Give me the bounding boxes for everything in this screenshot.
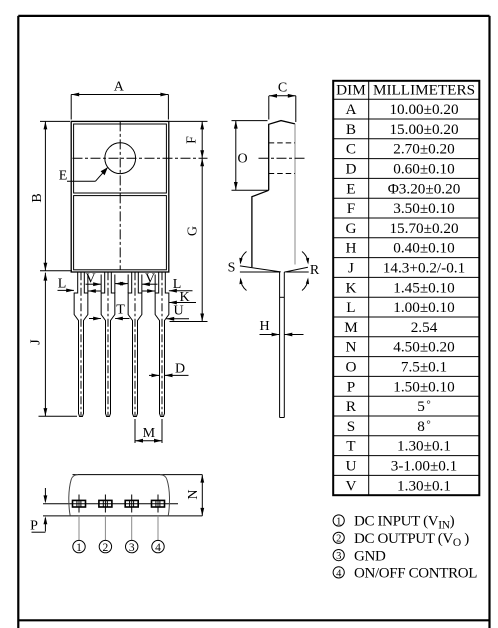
front view tab section inner outline <box>74 124 167 193</box>
svg-text:N: N <box>345 339 356 356</box>
dimension C line and arrows <box>269 94 296 122</box>
svg-text:L: L <box>346 299 355 316</box>
side view lead <box>280 272 285 418</box>
dimension A label <box>114 80 125 95</box>
svg-text:M: M <box>143 426 156 441</box>
svg-text:DC OUTPUT (VO ): DC OUTPUT (VO ) <box>354 531 469 549</box>
svg-text:MILLIMETERS: MILLIMETERS <box>373 82 475 99</box>
svg-text:10.00±0.20: 10.00±0.20 <box>389 101 458 118</box>
dimension E label <box>59 169 68 184</box>
side view body step and left edge <box>252 190 269 267</box>
svg-text:J: J <box>29 339 44 345</box>
dimension L left arrow <box>58 289 75 293</box>
svg-text:T: T <box>116 303 125 318</box>
svg-text:3.50±0.10: 3.50±0.10 <box>393 200 455 217</box>
svg-text:DC INPUT (VIN): DC INPUT (VIN) <box>354 514 455 532</box>
dimension O line and arrows <box>232 121 269 191</box>
side view tab outline <box>269 121 295 191</box>
dimension N label <box>186 489 201 499</box>
dimension L right label <box>173 277 182 292</box>
dimension U label <box>173 304 183 319</box>
dimension V middle gap double arrow <box>115 282 128 286</box>
front view horizontal center line through hole <box>73 157 208 159</box>
side view bottom reference line left <box>240 271 280 273</box>
svg-text:U: U <box>345 458 356 475</box>
pin 2 number leader line <box>104 516 106 540</box>
dimension N line and arrows <box>200 475 204 516</box>
front view pin 4 center line <box>161 272 163 416</box>
dimension F line and arrows <box>168 121 207 158</box>
dimension U arrow <box>166 317 189 321</box>
front view outer body outline <box>71 121 169 272</box>
dimension L right arrow <box>169 289 193 293</box>
svg-text:U: U <box>173 304 183 319</box>
front view pin 1 outline <box>74 272 88 416</box>
front view pin 1 center line <box>80 272 82 416</box>
svg-text:1.50±0.10: 1.50±0.10 <box>393 378 455 395</box>
svg-text:1: 1 <box>76 542 82 554</box>
svg-text:2: 2 <box>336 534 341 545</box>
dimension S arc arrows <box>239 252 246 291</box>
pin 2 number circle <box>99 540 111 554</box>
front view mounting hole <box>105 143 136 174</box>
dimension K arrow <box>169 301 196 305</box>
svg-text:D: D <box>345 161 356 178</box>
dimension table header <box>336 82 475 99</box>
dimension D label <box>175 362 185 377</box>
bottom view lead center line <box>43 503 178 505</box>
pin function notes <box>333 514 477 582</box>
pin 1 number leader line <box>78 516 80 540</box>
svg-text:1.00±0.10: 1.00±0.10 <box>393 299 455 316</box>
front view pin 2 outline <box>101 272 115 416</box>
pin 3 number circle <box>126 540 138 554</box>
svg-text:1.30±0.1: 1.30±0.1 <box>397 438 451 455</box>
svg-text:H: H <box>259 319 269 334</box>
svg-text:4: 4 <box>336 568 342 579</box>
dimension M line and arrows <box>135 439 162 443</box>
bottom view top edge with N extension <box>73 474 203 476</box>
side view bottom slant right <box>284 267 308 272</box>
svg-text:C: C <box>346 141 356 158</box>
svg-text:S: S <box>228 261 236 276</box>
dimension G label <box>186 226 201 236</box>
dimension R label <box>310 263 320 278</box>
svg-text:N: N <box>186 489 201 499</box>
dimension L left label <box>58 277 67 292</box>
svg-text:R: R <box>346 398 357 415</box>
svg-text:C: C <box>278 81 287 96</box>
dimension F label <box>185 136 200 144</box>
dimension M label <box>143 426 156 441</box>
side view lead tick <box>280 296 285 298</box>
svg-text:GND: GND <box>354 548 386 564</box>
bottom view pin 4 cross-section <box>152 495 165 513</box>
side view bottom reference line right <box>286 271 308 273</box>
svg-text:P: P <box>30 519 38 534</box>
bottom view left side <box>69 475 78 516</box>
pin 4 number circle <box>152 540 164 554</box>
dimension table rows <box>344 101 465 494</box>
dimension A line and arrows <box>71 93 168 120</box>
bottom view pin 1 cross-section <box>73 495 86 513</box>
svg-text:A: A <box>114 80 125 95</box>
svg-text:O: O <box>345 359 356 376</box>
svg-text:D: D <box>175 362 185 377</box>
side view hole center line <box>259 157 306 159</box>
svg-text:A: A <box>345 101 356 118</box>
bottom view right side <box>160 475 170 516</box>
pin 4 number leader line <box>157 516 159 540</box>
dimension B label <box>30 193 45 202</box>
bottom view bottom edge with extensions <box>43 515 202 517</box>
svg-text:S: S <box>347 418 355 435</box>
svg-text:3: 3 <box>129 542 135 554</box>
front view pin 3 outline <box>128 272 142 416</box>
side view bottom slant left <box>240 266 281 272</box>
svg-text:1.30±0.1: 1.30±0.1 <box>397 477 451 494</box>
svg-text:0.40±0.10: 0.40±0.10 <box>393 240 455 257</box>
svg-text:T: T <box>346 438 356 455</box>
svg-text:F: F <box>347 200 355 217</box>
pin 3 number leader line <box>131 516 133 540</box>
svg-text:1: 1 <box>336 516 341 527</box>
dimension J line and arrows <box>39 273 78 417</box>
side view right edge <box>294 124 296 265</box>
svg-text:5°: 5° <box>417 398 431 415</box>
dimension C label <box>278 81 287 96</box>
svg-text:O: O <box>237 152 247 167</box>
dimension P arrows <box>32 488 48 532</box>
svg-text:ON/OFF CONTROL: ON/OFF CONTROL <box>354 566 477 582</box>
svg-text:4.50±0.20: 4.50±0.20 <box>393 339 455 356</box>
svg-text:4: 4 <box>155 542 161 554</box>
dimension V right arrows <box>142 282 158 293</box>
bottom view pin 2 cross-section <box>99 495 112 513</box>
svg-text:8°: 8° <box>417 418 431 435</box>
side view hidden hole line top <box>269 142 295 144</box>
dimension V left label <box>85 272 95 287</box>
dimension R arc arrows <box>302 252 309 291</box>
svg-text:15.00±0.20: 15.00±0.20 <box>389 121 458 138</box>
dimension S label <box>228 261 236 276</box>
dimension K label <box>179 290 189 305</box>
svg-text:K: K <box>345 279 356 296</box>
dimension T arrows <box>89 317 130 321</box>
pin 1 number circle <box>73 540 85 554</box>
svg-text:H: H <box>345 240 356 257</box>
svg-text:R: R <box>310 263 320 278</box>
svg-text:15.70±0.20: 15.70±0.20 <box>389 220 458 237</box>
dimension V left arrows <box>86 282 102 293</box>
svg-text:E: E <box>59 169 68 184</box>
svg-text:V: V <box>345 477 356 494</box>
front view pin 2 center line <box>107 272 109 416</box>
svg-text:0.60±0.10: 0.60±0.10 <box>393 161 455 178</box>
bottom view pin 3 cross-section <box>125 495 138 513</box>
front view pin 3 center line <box>134 272 136 416</box>
side view hidden hole line bottom <box>269 173 295 175</box>
svg-text:P: P <box>347 378 355 395</box>
dimension D arrows <box>149 374 189 378</box>
svg-text:G: G <box>186 226 201 236</box>
dimension H label <box>259 319 269 334</box>
svg-text:G: G <box>345 220 356 237</box>
svg-text:14.3+0.2/-0.1: 14.3+0.2/-0.1 <box>383 260 465 277</box>
svg-text:2.54: 2.54 <box>411 319 438 336</box>
dimension E leader with arrow <box>67 167 108 181</box>
svg-text:7.5±0.1: 7.5±0.1 <box>401 359 447 376</box>
svg-text:3-1.00±0.1: 3-1.00±0.1 <box>391 458 458 475</box>
dimension P label <box>30 519 38 534</box>
svg-text:B: B <box>30 193 45 202</box>
svg-text:L: L <box>58 277 67 292</box>
front view vertical center line <box>119 121 121 269</box>
svg-text:E: E <box>346 180 355 197</box>
dimension M extension lines <box>135 419 162 443</box>
svg-text:B: B <box>346 121 356 138</box>
dimension B line and arrows <box>40 121 72 270</box>
svg-text:J: J <box>348 260 354 277</box>
dimension O label <box>237 152 247 167</box>
svg-text:F: F <box>185 136 200 144</box>
pin gap extension lines for V dimensions <box>88 275 155 294</box>
dimension H arrows <box>260 333 304 337</box>
dimension table grid <box>333 81 479 495</box>
svg-text:M: M <box>344 319 358 336</box>
front view lower body inner outline <box>74 196 167 270</box>
dimension J label <box>29 339 44 345</box>
svg-text:2.70±0.20: 2.70±0.20 <box>393 141 455 158</box>
svg-text:2: 2 <box>103 542 109 554</box>
front view pin 4 outline <box>155 272 169 416</box>
dimension G line and arrows <box>170 158 208 321</box>
dimension V right label <box>145 272 155 287</box>
svg-text:DIM: DIM <box>336 82 366 99</box>
svg-text:1.45±0.10: 1.45±0.10 <box>393 279 455 296</box>
dimension T label <box>116 303 125 318</box>
svg-text:Φ3.20±0.20: Φ3.20±0.20 <box>388 180 461 197</box>
svg-text:3: 3 <box>336 551 341 562</box>
